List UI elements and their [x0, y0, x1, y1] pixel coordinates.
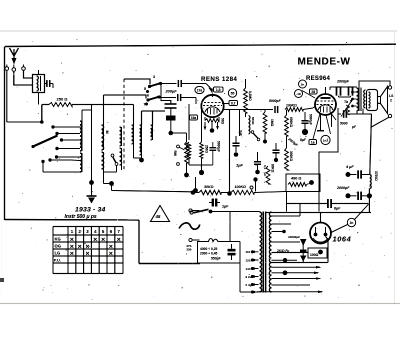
- wire switch top run: [124, 79, 150, 85]
- contact dots S1: [51, 125, 80, 150]
- svg-text:50Ω: 50Ω: [221, 118, 225, 125]
- label RES964: [306, 76, 331, 82]
- svg-text:5000pF: 5000pF: [269, 99, 282, 103]
- svg-text:8µF: 8µF: [334, 207, 341, 211]
- circled -18: [295, 90, 316, 99]
- wire cap-5000 run: [338, 110, 372, 129]
- label Instr: [65, 214, 97, 220]
- wire U1 plate right: [222, 103, 229, 105]
- svg-text:80KΩ: 80KΩ: [271, 164, 275, 173]
- wire antenna t2: [14, 71, 32, 85]
- resistor R-490: [288, 180, 314, 186]
- svg-text:M: M: [105, 131, 109, 134]
- wire L2 top: [103, 95, 105, 125]
- switch contact 6 label: [147, 94, 149, 98]
- wire hv top: [287, 192, 328, 217]
- svg-text:100KΩ: 100KΩ: [235, 185, 247, 189]
- svg-text:110: 110: [246, 250, 251, 254]
- page edge bottom: [0, 303, 400, 305]
- svg-text:2000pF: 2000pF: [336, 80, 350, 84]
- switch contact 7 label: [144, 103, 149, 107]
- wire top caps: [326, 87, 358, 97]
- label 50ohm: [221, 118, 225, 125]
- frame top border: [5, 44, 396, 46]
- svg-text:1MΩ: 1MΩ: [270, 119, 274, 127]
- svg-text:5000: 5000: [340, 122, 348, 126]
- label 100Kohm: [235, 185, 247, 189]
- junction R30K left: [191, 190, 196, 195]
- svg-text:600Ω: 600Ω: [251, 117, 255, 125]
- resistor R-1M: [263, 110, 274, 134]
- capacitor C-mid2: [254, 152, 261, 174]
- svg-text:250 Ω: 250 Ω: [57, 97, 69, 102]
- frame left border: [4, 47, 6, 221]
- ground symbol: [87, 184, 97, 204]
- capacitor C-5000pF: [269, 99, 282, 113]
- svg-text:-18: -18: [296, 92, 301, 96]
- svg-text:1µF: 1µF: [236, 163, 244, 168]
- capacitor C-4uF: [345, 165, 370, 179]
- junction cathode: [189, 158, 213, 175]
- svg-text:KG: KG: [55, 237, 61, 242]
- tube U1 grid dashes: [203, 103, 222, 115]
- tube 1064 anodes: [313, 227, 328, 242]
- svg-text:2000 ÷ 0,45: 2000 ÷ 0,45: [200, 252, 218, 256]
- label 200uF: [165, 89, 178, 94]
- wire div: [263, 133, 267, 144]
- rectifier tube V-1064: [310, 213, 331, 244]
- coil L4: [132, 125, 134, 144]
- label LS2: [389, 94, 394, 103]
- svg-text:4 µF: 4 µF: [345, 165, 354, 169]
- page edge right: [394, 31, 396, 303]
- capacitor C-1uF-sw: [209, 199, 229, 209]
- capacitor C-3uF: [232, 130, 242, 157]
- choke Ta: [341, 99, 353, 117]
- speaker cone: [378, 87, 388, 114]
- svg-text:200µF: 200µF: [165, 89, 178, 94]
- svg-text:×: ×: [86, 244, 90, 251]
- coil L5: [140, 125, 142, 155]
- capacitor C-550uF: [228, 244, 236, 260]
- svg-text:0,2MΩ: 0,2MΩ: [248, 91, 252, 101]
- svg-text:6: 6: [147, 94, 149, 98]
- legend text: [187, 244, 193, 252]
- svg-text:P.U.: P.U.: [54, 258, 61, 263]
- svg-text:17a: 17a: [197, 89, 203, 93]
- coil L2 label M: [105, 131, 109, 134]
- label 01uF: [263, 165, 267, 176]
- legend squiggle: [179, 223, 200, 229]
- tube U1 heater: [205, 117, 219, 122]
- wire plate to cap: [236, 110, 273, 118]
- box 15a: [190, 115, 198, 120]
- tone text 1: [200, 247, 218, 251]
- contact dots S1 lower: [41, 155, 80, 172]
- svg-text:230-: 230-: [187, 248, 193, 252]
- tube U2 leads: [313, 112, 336, 139]
- capacitor C-top1: [336, 87, 342, 97]
- svg-text:250Ω: 250Ω: [205, 145, 209, 153]
- svg-text:550µF: 550µF: [211, 257, 221, 261]
- resistor 250ohm label: [57, 97, 69, 102]
- tube U2 grid dashes: [317, 101, 335, 113]
- capacitor C-cath: [209, 142, 216, 158]
- label 30Kohm: [204, 185, 214, 189]
- legend terminal 1: [189, 209, 200, 212]
- svg-text:LS: LS: [389, 94, 394, 98]
- resistor R-30K: [192, 190, 222, 194]
- svg-text:×: ×: [101, 237, 105, 244]
- svg-text:100KΩ: 100KΩ: [286, 104, 297, 108]
- svg-text:5000µF: 5000µF: [309, 114, 313, 125]
- svg-text:×: ×: [70, 251, 74, 258]
- svg-text:×: ×: [86, 251, 90, 258]
- speaker LS2 frame: [367, 90, 378, 111]
- legend terminal 2: [189, 238, 200, 241]
- transformer top leads: [252, 211, 260, 214]
- svg-text:600KΩ: 600KΩ: [289, 117, 293, 128]
- box 490: [286, 174, 320, 192]
- svg-text:0,7: 0,7: [231, 102, 236, 106]
- box 28: [310, 89, 318, 94]
- capacitor C-5000uF: [301, 112, 312, 135]
- antenna terminal 2: [12, 65, 16, 72]
- antenna: [10, 48, 19, 65]
- circle 55: [228, 89, 236, 97]
- antenna terminal 1: [5, 65, 9, 71]
- svg-text:125: 125: [246, 258, 251, 262]
- svg-text:Instr 500 μ ps: Instr 500 μ ps: [65, 214, 97, 220]
- wire antenna t1 down: [7, 70, 42, 122]
- box 100ohm: [308, 248, 327, 258]
- wire step plate: [319, 108, 338, 212]
- wire tonebox bottom: [240, 263, 252, 292]
- tuning coil L1 upper: [80, 121, 82, 151]
- svg-text:9 2s: 9 2s: [246, 275, 252, 279]
- wire hv bottom: [266, 212, 371, 214]
- wire right rail: [370, 114, 372, 175]
- coil L-600: [240, 110, 256, 137]
- speaker terminal top: [388, 86, 391, 89]
- resistor R-100K: [285, 104, 313, 112]
- junction ground: [89, 180, 94, 185]
- junction RW bottom: [184, 163, 189, 177]
- svg-text:3: 3: [153, 75, 155, 79]
- wire y84 to cap: [161, 83, 177, 85]
- svg-text:RES964: RES964: [306, 76, 331, 82]
- resistor R-2M: [185, 142, 191, 158]
- wire tonebox top: [229, 212, 231, 242]
- svg-text:×: ×: [109, 251, 113, 258]
- tube U2 RES964 envelope: [315, 94, 336, 115]
- svg-text:140: 140: [246, 267, 251, 271]
- wire plate rail: [224, 79, 246, 112]
- svg-text:2n: 2n: [350, 221, 354, 225]
- svg-text:2: 2: [390, 99, 392, 103]
- tube U1 left lead: [189, 104, 202, 140]
- resistor R-300K: [285, 136, 293, 170]
- tone text 3: [211, 257, 221, 261]
- transformer T-power primary: [260, 212, 262, 292]
- svg-text:×: ×: [78, 244, 82, 251]
- dashed gang line: [123, 79, 125, 170]
- junction RW out: [193, 177, 198, 193]
- svg-text:LG: LG: [55, 251, 61, 256]
- resistor R-250c: [200, 142, 204, 158]
- transformer primary taps: [246, 250, 259, 294]
- svg-text:45: 45: [155, 214, 161, 219]
- padder switch S2: [104, 154, 118, 172]
- svg-text:30KΩ: 30KΩ: [204, 185, 214, 189]
- choke 3750: [370, 171, 378, 189]
- wire 490 down: [286, 192, 288, 212]
- svg-text:0 4g: 0 4g: [246, 283, 252, 287]
- label 1933-34: [75, 207, 106, 214]
- band switch S3: [148, 82, 162, 88]
- wire L1 top: [82, 110, 92, 121]
- svg-text:RENS 1284: RENS 1284: [201, 76, 237, 83]
- resistor R-100K2: [221, 190, 286, 194]
- svg-text:×: ×: [93, 237, 97, 244]
- wire R250 left down: [40, 105, 44, 124]
- switch S-tone: [190, 209, 213, 214]
- speaker terminal bottom: [371, 114, 391, 127]
- tone text 2: [200, 252, 218, 256]
- box 0.7: [229, 101, 238, 106]
- switch contact 5 label: [144, 87, 149, 93]
- caps small left: [300, 239, 307, 263]
- wire antenna t3: [24, 70, 33, 78]
- grid top cap arrow: [206, 84, 213, 94]
- label Ta: [344, 100, 348, 104]
- resistor R-250: [42, 103, 134, 107]
- svg-text:1a: 1a: [311, 141, 315, 145]
- band switch S4: [146, 95, 160, 101]
- svg-text:2n: 2n: [301, 83, 305, 87]
- table grid: [53, 227, 123, 274]
- svg-text:28: 28: [311, 90, 315, 94]
- coil L6: [151, 125, 153, 140]
- tone box: [198, 239, 241, 264]
- switch lever S1: [31, 136, 57, 149]
- label 8uF-b: [300, 138, 307, 142]
- scan speckle: [10, 39, 392, 300]
- triangle 45: [151, 206, 170, 222]
- svg-text:×: ×: [70, 244, 74, 251]
- wire U2 grid: [313, 98, 332, 131]
- coil L2 M upper: [102, 125, 104, 150]
- wire tone run: [211, 211, 260, 213]
- label 10000uF: [288, 235, 300, 239]
- svg-text:100Ω: 100Ω: [310, 253, 319, 257]
- transformer T-power secondary: [269, 212, 271, 292]
- label 2000pF-g: [336, 80, 350, 84]
- svg-text:1064: 1064: [333, 235, 352, 244]
- svg-text:490 Ω: 490 Ω: [291, 177, 301, 181]
- label 1uF mid: [236, 163, 244, 168]
- svg-text:×: ×: [70, 237, 74, 244]
- svg-text:MENDE-W: MENDE-W: [298, 57, 351, 68]
- page edge left marks: [0, 220, 4, 295]
- capacitor C-2000pF: [336, 186, 369, 200]
- pot RW: [173, 142, 188, 165]
- wire y98 to cap: [159, 97, 176, 99]
- wire RW top: [171, 133, 187, 142]
- label 5000pF-c: [217, 141, 221, 152]
- svg-text:RW: RW: [173, 151, 177, 157]
- circled 2n: [347, 218, 355, 226]
- contact small: [250, 186, 253, 189]
- junction R100K left: [227, 110, 232, 196]
- junction L2 bottom: [104, 169, 192, 192]
- antenna terminal 3: [22, 65, 26, 71]
- svg-text:1,5: 1,5: [216, 88, 221, 92]
- coil L2 lower: [102, 152, 104, 169]
- coil L3 lower: [120, 148, 122, 165]
- antenna coil T1: [33, 70, 45, 105]
- wire x131 vertical: [133, 105, 135, 126]
- ground rail: [91, 105, 93, 182]
- svg-text:15a: 15a: [191, 116, 197, 120]
- svg-text:10000µF: 10000µF: [288, 235, 300, 239]
- transformer core: [263, 212, 265, 293]
- svg-text:300KΩ: 300KΩ: [289, 151, 293, 162]
- svg-text:5000pF: 5000pF: [217, 141, 221, 152]
- svg-text:8µF: 8µF: [300, 138, 307, 142]
- label 1064: [333, 235, 352, 244]
- label 490ohm: [291, 177, 301, 181]
- wire T2 top: [359, 81, 390, 88]
- svg-text:×: ×: [109, 244, 113, 251]
- output transformer T2: [357, 88, 366, 115]
- circled 1n2: [321, 135, 330, 144]
- capacitor C-8uF: [328, 199, 369, 211]
- title MENDE-W: [298, 57, 351, 68]
- capacitor C1 200pF: [178, 80, 206, 87]
- resistor R-0.2M: [244, 88, 248, 113]
- tuning coil L1 lower: [80, 153, 82, 172]
- wire x141 vertical: [142, 111, 166, 125]
- capacitor C-2000uF: [272, 137, 298, 162]
- wire rail bottom: [367, 189, 372, 213]
- label RENS 1284: [201, 76, 237, 83]
- svg-text:2000pF: 2000pF: [336, 186, 350, 190]
- frame step down: [138, 220, 140, 264]
- svg-text:55: 55: [231, 92, 235, 96]
- capacitor C-top2: [348, 87, 354, 97]
- circled FA: [195, 86, 204, 93]
- frame bottom border left: [5, 219, 140, 222]
- circled 2n2: [299, 80, 307, 88]
- table row labels: [54, 237, 61, 263]
- svg-text:3750Ω: 3750Ω: [374, 171, 378, 181]
- svg-text:3µF: 3µF: [239, 130, 243, 136]
- capacitor C2: [178, 94, 196, 104]
- label 0.2Mohm: [248, 91, 252, 101]
- table X marks: [70, 237, 121, 258]
- wire switch mid run: [104, 95, 147, 99]
- svg-text:4000 ÷ 0,25: 4000 ÷ 0,25: [200, 247, 218, 251]
- label 250ohm-c: [205, 145, 209, 153]
- svg-text:OG: OG: [55, 244, 62, 249]
- svg-text:×: ×: [117, 237, 121, 244]
- table header numbers: [71, 229, 121, 234]
- switch S-mid: [251, 131, 260, 141]
- svg-text:Ta: Ta: [344, 100, 348, 104]
- svg-text:1933 - 34: 1933 - 34: [75, 207, 106, 214]
- heater loop: [272, 237, 329, 263]
- resistor R-600K: [285, 110, 293, 137]
- wire coil bank joins: [122, 144, 142, 170]
- frame bottom border right: [139, 263, 200, 265]
- tube U1 grid return: [201, 110, 203, 142]
- wire 2n diag: [330, 204, 369, 233]
- transformer secondary taps: [257, 216, 324, 293]
- page edge top: [0, 30, 397, 32]
- tube U1 RENS1284 envelope: [201, 94, 223, 118]
- switch contact 3 label: [153, 75, 155, 79]
- resistor R-80K: [266, 164, 274, 184]
- T2 taps: [351, 91, 356, 108]
- box 1.5: [214, 87, 224, 92]
- label 2KW Fu: [276, 249, 289, 253]
- coil L3: [120, 127, 122, 146]
- capacitor C-ant: [45, 80, 54, 88]
- svg-text:1µF: 1µF: [222, 205, 229, 209]
- capacitor C-block: [161, 84, 177, 136]
- tube U1 cathode leads: [204, 122, 219, 133]
- junction coil bank: [139, 158, 144, 163]
- box 1d: [309, 140, 317, 145]
- junction 490 left: [253, 177, 257, 191]
- svg-text:5: 5: [144, 87, 146, 91]
- wire x152 vertical: [152, 111, 154, 125]
